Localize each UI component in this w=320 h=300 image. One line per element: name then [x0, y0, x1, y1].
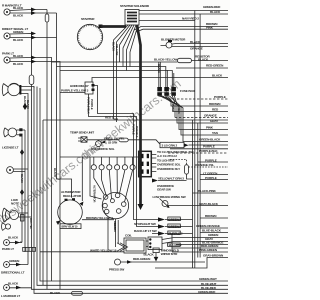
wire fan right y38.5 — [136, 29, 228, 32]
svg-text:BLACK: BLACK — [8, 282, 19, 286]
connector arrow — [31, 60, 36, 64]
svg-text:BLK-GRN 2: BLK-GRN 2 — [169, 243, 182, 247]
fusebox dashed top — [169, 98, 228, 100]
right edge labels — [154, 5, 226, 294]
wire bl3 — [10, 287, 32, 289]
svg-text:PURPLE-YELLOW 3: PURPLE-YELLOW 3 — [61, 89, 89, 93]
fuse capsule F2 — [29, 75, 34, 85]
svg-text:BLACK: BLACK — [13, 62, 24, 66]
svg-text:A-C CLUTCH 2: A-C CLUTCH 2 — [157, 154, 177, 158]
wiper motor box — [153, 248, 159, 253]
wire y148 — [170, 148, 228, 150]
horn high note — [5, 224, 10, 229]
svg-text:PRES. SW TEL: PRES. SW TEL — [105, 136, 125, 140]
svg-text:GREEN: GREEN — [13, 30, 24, 34]
capsule vertical — [185, 165, 189, 174]
connector arrow — [31, 11, 36, 15]
svg-text:COIL: COIL — [125, 233, 132, 237]
svg-text:BLACK: BLACK — [144, 253, 155, 257]
headlight H2 — [8, 128, 17, 137]
svg-text:BRN-YELW 10: BRN-YELW 10 — [62, 225, 78, 229]
svg-text:RED-GREEN: RED-GREEN — [206, 64, 224, 68]
svg-text:BLUE-BLACK: BLUE-BLACK — [202, 229, 222, 233]
svg-text:ORANGE-YEL: ORANGE-YEL — [195, 163, 214, 167]
svg-text:BLACK: BLACK — [13, 14, 24, 18]
distributor — [102, 192, 128, 218]
svg-text:LOW BRAKE WRNG SW: LOW BRAKE WRNG SW — [153, 195, 186, 199]
svg-text:TEMP SEND UNIT: TEMP SEND UNIT — [70, 130, 94, 134]
connector arrow — [31, 36, 36, 40]
diamond arrow — [23, 103, 27, 110]
stoplight arrows — [158, 217, 165, 221]
connector arrow — [15, 241, 20, 245]
fuse capsule F1 — [46, 10, 48, 15]
svg-text:BLACK: BLACK — [26, 100, 30, 109]
junction bar — [19, 85, 21, 95]
svg-text:NOTE: NOTE — [11, 202, 19, 206]
wire horn-a — [19, 212, 28, 214]
svg-text:STARTER: STARTER — [81, 17, 95, 21]
svg-text:BLACK-YELLOW: BLACK-YELLOW — [154, 58, 178, 62]
svg-text:PUR-L: PUR-L — [171, 104, 175, 112]
wire x113 bend — [114, 118, 119, 120]
thick battery cable down — [137, 25, 141, 204]
svg-text:PURPLE: PURPLE — [214, 95, 226, 99]
svg-text:BROWN: BROWN — [209, 102, 221, 106]
svg-text:J-BLK: J-BLK — [177, 106, 181, 114]
wire vert x22 — [20, 135, 22, 242]
svg-text:RED-GREEN: RED-GREEN — [133, 257, 151, 261]
connector arrow — [31, 32, 36, 36]
alternator — [58, 200, 83, 225]
wire dir-1 — [10, 34, 32, 76]
svg-text:WHITE-YELLOW 18: WHITE-YELLOW 18 — [90, 249, 117, 253]
svg-text:BLK-YEL: BLK-YEL — [29, 218, 33, 230]
block wires — [151, 155, 156, 172]
svg-text:YELLOW: YELLOW — [115, 44, 119, 56]
cable arrowhead — [138, 204, 144, 210]
svg-text:ALTERNATOR: ALTERNATOR — [93, 185, 97, 202]
backup light sw box — [148, 237, 162, 250]
horn relay box — [85, 82, 93, 94]
wire dist drop x90 — [90, 157, 102, 199]
wire coil-backup — [146, 241, 148, 247]
wire bottom 3 — [32, 92, 229, 290]
svg-text:BLACK: BLACK — [210, 10, 221, 14]
svg-text:PURPLE: PURPLE — [90, 99, 94, 110]
resistor — [178, 58, 192, 62]
svg-text:GREEN-BLACK: GREEN-BLACK — [199, 138, 221, 142]
backup wires — [162, 238, 228, 244]
svg-text:BLACK-PINK: BLACK-PINK — [198, 189, 217, 193]
svg-text:BLACK: BLACK — [212, 74, 223, 78]
svg-text:BLACK: BLACK — [113, 223, 117, 232]
horn — [9, 210, 18, 219]
alt wire right — [82, 219, 114, 221]
label box green2 — [168, 217, 181, 221]
svg-text:ORANGE: ORANGE — [190, 47, 203, 51]
bottom capsule — [72, 291, 83, 295]
svg-text:BLACK: BLACK — [198, 58, 209, 62]
wire marker-1 — [10, 10, 47, 11]
wire marker-2 — [10, 12, 57, 14]
fuse box blobs — [157, 87, 162, 91]
wire vert x60 — [59, 71, 61, 290]
lamp RMARKER circle — [4, 9, 10, 15]
wire h1-b — [20, 89, 32, 91]
vertical pair 1 — [193, 11, 195, 269]
svg-text:PURPLE-BLK: PURPLE-BLK — [199, 149, 218, 153]
svg-text:DIRECTIONAL LT: DIRECTIONAL LT — [1, 271, 25, 275]
svg-text:L MARKER LT: L MARKER LT — [1, 294, 20, 298]
diamond arrow — [20, 189, 24, 195]
svg-text:PARK LT: PARK LT — [2, 247, 14, 251]
svg-text:3 LB GRN 2: 3 LB GRN 2 — [162, 144, 178, 148]
temp wire y140 — [87, 140, 228, 145]
starter terminal — [99, 25, 103, 29]
wire corner h67 — [57, 67, 168, 88]
wire alt drop x82 — [81, 157, 83, 201]
svg-text:BLACK: BLACK — [13, 54, 24, 58]
solenoid wire right-1 — [139, 10, 228, 12]
blower motor — [166, 42, 172, 48]
svg-text:PINK: PINK — [206, 126, 214, 130]
svg-text:GREEN 3: GREEN 3 — [169, 224, 182, 228]
svg-text:PURPLE: PURPLE — [205, 159, 217, 163]
wires right low — [172, 245, 228, 253]
svg-text:ORANGE: ORANGE — [204, 114, 217, 118]
svg-text:BLACK: BLACK — [13, 38, 24, 42]
svg-text:GREEN-ORANGE: GREEN-ORANGE — [196, 224, 220, 228]
wire long y120 — [43, 119, 228, 121]
relay wire b — [95, 86, 159, 220]
watermark — [0, 76, 184, 227]
coil chevron — [117, 243, 128, 251]
lamp mid circle — [7, 167, 14, 174]
wire bottom 4 — [34, 87, 228, 294]
wire bottom 2 — [37, 87, 228, 286]
svg-text:PURPLE 2: PURPLE 2 — [169, 231, 183, 235]
fuse wires out — [158, 96, 169, 99]
svg-text:REGULATOR: REGULATOR — [63, 194, 82, 198]
wire dir-2 — [10, 37, 57, 39]
svg-text:GRAY-BLACK: GRAY-BLACK — [199, 202, 219, 206]
wire fan right y35 — [134, 27, 228, 31]
svg-text:STOPLIGHT SW: STOPLIGHT SW — [134, 222, 156, 226]
bottom long wires group — [32, 87, 229, 294]
thick cable starter-solenoid — [101, 25, 126, 28]
svg-text:WIPER MTR: WIPER MTR — [161, 252, 178, 256]
svg-text:PINK: PINK — [206, 26, 214, 30]
relay wire c — [89, 94, 159, 227]
temp send unit — [81, 137, 87, 142]
wire park-2 — [10, 62, 60, 71]
svg-text:PUR-BLK: PUR-BLK — [135, 126, 139, 138]
wire h2-b — [17, 134, 22, 136]
svg-text:BLACK: BLACK — [13, 6, 24, 10]
wire corner h62 to resistor — [52, 62, 178, 87]
svg-text:PURPLE: PURPLE — [205, 176, 217, 180]
fusebox dashed mid — [175, 117, 228, 119]
wire x108 — [107, 218, 109, 252]
svg-text:RED: RED — [212, 108, 219, 112]
connector arrow — [16, 263, 21, 267]
headlight H1 — [8, 83, 20, 95]
wires right cluster — [188, 166, 228, 168]
svg-text:YELLOW-LT GRN 3: YELLOW-LT GRN 3 — [158, 176, 184, 180]
lamp BL2 circle — [4, 262, 10, 268]
solenoid wire right-2 — [139, 13, 228, 15]
wire vert x56.5 — [57, 13, 72, 198]
lamp BL3 circle — [4, 285, 10, 291]
wire bl1 — [10, 242, 23, 244]
svg-text:GREEN-RED: GREEN-RED — [203, 5, 221, 9]
brake warning sw — [162, 201, 168, 207]
relay wire left — [60, 92, 85, 94]
capsule c1 — [119, 138, 128, 142]
solenoid fan wires — [114, 25, 129, 119]
ground arrow — [155, 253, 157, 258]
svg-text:OVERDRIVE RLY: OVERDRIVE RLY — [157, 167, 181, 171]
svg-text:PINK-GREEN: PINK-GREEN — [199, 248, 218, 252]
svg-text:HORN RELAY: HORN RELAY — [70, 84, 90, 88]
wire vert x25 — [24, 130, 26, 252]
svg-text:GRAY: GRAY — [210, 119, 219, 123]
step wire graybrown — [155, 258, 228, 269]
rotated labels — [20, 42, 181, 232]
coil — [124, 238, 146, 253]
connector arrow — [31, 56, 36, 60]
svg-text:OVERDRIVE SOL: OVERDRIVE SOL — [91, 147, 115, 151]
starter solenoid box — [125, 10, 139, 26]
svg-text:BLACK: BLACK — [157, 64, 161, 73]
alternator ground box — [60, 224, 81, 229]
vertical pair 2 — [198, 14, 200, 258]
lamp PARK circle — [4, 57, 10, 63]
svg-text:LT GREEN: LT GREEN — [203, 172, 218, 176]
wire horn-b — [19, 216, 31, 218]
kickdown wire — [158, 180, 187, 182]
label box green3 — [168, 224, 181, 228]
wire h1-c — [20, 94, 28, 265]
wire lampmid — [13, 169, 28, 172]
lamp DIRECTIONAL circle — [4, 33, 10, 39]
wire bottom 1 — [40, 88, 228, 281]
oil sw circle — [96, 141, 102, 147]
h2 terminal blobs — [19, 128, 22, 131]
svg-text:TAN: TAN — [212, 131, 219, 135]
spark plug row — [91, 157, 135, 202]
svg-text:GRAY-BROWN: GRAY-BROWN — [203, 254, 224, 258]
wire whiteyellow y252 — [40, 251, 124, 253]
wire corner h71 — [60, 71, 174, 88]
svg-text:NAVY-RED 2: NAVY-RED 2 — [182, 17, 199, 21]
wire h2-a — [17, 129, 25, 131]
diamond arrow — [20, 149, 24, 155]
svg-text:BLACK: BLACK — [190, 40, 201, 44]
connector strip — [23, 247, 36, 251]
dashed y153 — [168, 152, 228, 154]
svg-text:RED 2: RED 2 — [105, 116, 114, 120]
svg-text:GREEN 2: GREEN 2 — [169, 217, 182, 221]
svg-text:BROWN: BROWN — [205, 214, 217, 218]
wire park-1 — [10, 58, 52, 63]
svg-text:LB GRN: LB GRN — [108, 141, 117, 145]
boxed label — [168, 243, 181, 246]
dashed link — [170, 160, 187, 165]
distributor stub down — [115, 219, 118, 247]
label box purple2 — [168, 231, 181, 235]
svg-text:LICENSE LT: LICENSE LT — [2, 146, 19, 150]
svg-text:PRESS SW: PRESS SW — [109, 268, 124, 272]
horn bracket — [21, 215, 24, 222]
svg-text:PURPLE: PURPLE — [203, 145, 215, 149]
solenoid wire right-3 — [139, 20, 195, 22]
wire blackpink — [193, 192, 229, 194]
relay wire top — [92, 78, 228, 83]
wire brown y218 — [200, 217, 228, 219]
lamp BL1 circle — [4, 240, 10, 246]
svg-text:BLACK: BLACK — [20, 174, 24, 183]
svg-text:FUSE BOX: FUSE BOX — [180, 89, 196, 93]
svg-text:BACK-UP LT SW: BACK-UP LT SW — [134, 229, 157, 233]
blower wires — [161, 44, 229, 47]
wire x43 down — [32, 85, 44, 286]
svg-text:BROWN-YELLOW 3: BROWN-YELLOW 3 — [86, 216, 113, 220]
connector arrow — [16, 286, 21, 290]
resistor wire — [176, 61, 228, 69]
svg-text:BLOWER MOTOR: BLOWER MOTOR — [161, 38, 186, 42]
press sw — [115, 259, 121, 265]
svg-text:BLACK: BLACK — [53, 168, 57, 177]
wire h1-a — [20, 87, 34, 89]
svg-text:GEAR SW: GEAR SW — [157, 188, 171, 192]
label box 3LBGRN — [160, 142, 184, 147]
svg-text:BLACK: BLACK — [8, 236, 19, 240]
wire long y157 — [60, 156, 138, 158]
wire bl2 — [10, 264, 29, 266]
starter motor — [77, 24, 102, 49]
svg-text:GREEN: GREEN — [9, 259, 20, 263]
svg-text:BLACK: BLACK — [139, 160, 143, 169]
kickdown arrow — [152, 179, 158, 183]
connector block — [139, 151, 152, 176]
svg-text:PURPLE-BLK: PURPLE-BLK — [87, 97, 91, 114]
svg-text:STARTER SOLENOID: STARTER SOLENOID — [120, 4, 150, 8]
wire vert x47 — [46, 22, 48, 289]
wire vert x51.5 — [51, 62, 53, 281]
connector arrow — [31, 8, 36, 12]
